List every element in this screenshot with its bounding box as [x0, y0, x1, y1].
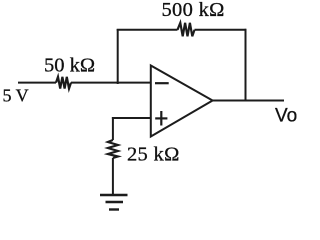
- wire non-inverting input horizontal: [112, 117, 152, 119]
- wire feedback right vertical: [245, 29, 247, 102]
- wire feedback top left segment: [117, 29, 178, 31]
- svg-text:50 kΩ: 50 kΩ: [44, 55, 95, 77]
- resistor R1 50 kOhm zigzag: [56, 77, 71, 89]
- wire input left segment: [18, 82, 56, 84]
- wire resistor to ground: [112, 158, 114, 195]
- wire feedback left vertical: [117, 29, 119, 84]
- resistor R2 500 kOhm zigzag: [178, 23, 195, 37]
- resistor R3 25 kOhm vertical zigzag: [108, 140, 118, 158]
- wire feedback top right segment: [195, 29, 247, 31]
- svg-text:500 kΩ: 500 kΩ: [162, 0, 225, 21]
- wire output: [211, 100, 284, 102]
- svg-text:Vo: Vo: [275, 106, 297, 127]
- svg-text:5 V: 5 V: [3, 86, 29, 106]
- op-amp non-inverting plus sign: [155, 111, 167, 126]
- op-amp inverting minus sign: [155, 82, 169, 84]
- wire input to inverting input: [71, 82, 152, 84]
- op-amp U1 triangle: [151, 66, 213, 137]
- wire non-inverting vertical to resistor: [112, 117, 114, 140]
- ground symbol: [100, 195, 128, 210]
- svg-text:25 kΩ: 25 kΩ: [127, 144, 180, 166]
